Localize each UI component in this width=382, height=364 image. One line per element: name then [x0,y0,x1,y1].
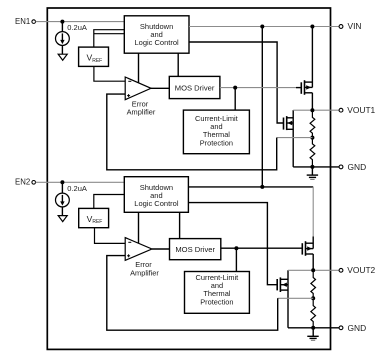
wire GND2 rail [313,327,339,329]
pin EN2 terminal circle [32,181,36,185]
wire I2 to ground [61,207,63,216]
resistor R1 [310,110,315,137]
wire VREF2 bottom to error amp 2 inverting input [95,228,126,244]
wire Shutdown2 to MOS Driver 2 [179,212,181,238]
wire Shutdown1 to VIN rail [189,26,339,28]
wire VREF1 bottom to error amp inverting input [94,66,125,81]
svg-text:Protection: Protection [200,139,233,148]
wire EN2 node to current source I2 [61,182,63,193]
svg-text:Logic Control: Logic Control [134,38,179,47]
wire error amp 2 output to MOS Driver 2 [152,248,170,250]
wire error amp 1 output to MOS Driver 1 [151,87,169,89]
ground symbol 1 [311,167,313,175]
wire Shutdown2 enable to error amp 2 [138,212,140,243]
wire VIN down to channel 2 [261,27,263,187]
reference VREF2 box [79,208,109,227]
svg-text:EN1: EN1 [15,17,30,26]
block MOS Driver 2 [170,239,221,260]
current source I1 0.2uA [56,32,70,46]
wire Q3 source down to VOUT2 [312,254,314,270]
block Current-Limit and Thermal Protection 1 [183,110,249,154]
svg-text:VOUT2: VOUT2 [347,265,375,275]
svg-text:Logic Control: Logic Control [134,199,179,208]
node feedback tap 1 [310,136,314,140]
wire feedback 2: tap to error amp 2 + input [278,297,314,299]
svg-text:EN2: EN2 [15,178,30,187]
wire VIN down to Q1 drain/body [311,27,313,88]
wire Q4 drain up to VOUT2 rail and source down to GND rail [287,270,289,328]
wire EN2 to Shutdown2 [36,181,125,183]
resistor R4 [311,298,316,328]
wire Shutdown1 to Q2 gate [189,42,284,123]
node VIN feed joins [260,185,264,189]
reference VREF1 box [79,47,109,66]
svg-text:0.2uA: 0.2uA [67,23,87,32]
wire VREF2 top to Shutdown2 [94,195,125,209]
pin GND1 terminal [339,165,343,169]
svg-text:VOUT1: VOUT1 [347,105,375,115]
wire MOS Driver 2 output to Q3 gate [221,247,303,249]
wire I1 to ground [61,45,63,54]
block Shutdown and Logic Control 2 [124,177,188,213]
wire VOUT2 rail [288,269,339,271]
node feedback tap 2 [311,296,315,300]
node VOUT2 divider tap [311,268,315,272]
svg-text:VIN: VIN [348,21,362,31]
node VIN tap to channel 2 [260,25,264,29]
node EN1 junction [60,20,64,24]
transistor Q3 (pass PMOS ch2) [301,243,303,254]
current source I2 0.2uA [56,193,70,207]
transistor Q2 (feedback NMOS) [283,118,285,130]
ground (open triangle) under I2 [58,216,67,222]
wire feedback 1: tap to error amp + input [277,137,313,139]
svg-text:GND: GND [348,323,367,333]
wire EN1 node to current source I1 [61,22,63,32]
wire to Current-Limit 2 [235,248,237,271]
outer IC boundary box [47,8,330,349]
wire VIN feed down to Q3 [312,187,314,237]
pin VIN terminal [339,25,343,29]
node MOS Driver 1 output to current limit [233,86,237,90]
svg-text:MOS Driver: MOS Driver [175,83,215,92]
node VOUT1 divider tap [310,108,314,112]
wire GND1 rail [312,166,339,168]
svg-text:Amplifier: Amplifier [127,108,156,117]
wire to Current-Limit 1 [234,88,236,111]
svg-text:Protection: Protection [200,298,233,307]
svg-text:0.2uA: 0.2uA [67,184,87,193]
pin VOUT1 terminal [339,108,343,112]
node VIN tap to Q1 drain [310,25,314,29]
resistor R2 [310,138,315,167]
wire VREF1 to Shutdown1 (lower) [94,33,125,35]
pin GND2 terminal [339,326,343,330]
wire Shutdown1 to MOS Driver 1 [177,53,179,76]
svg-text:Amplifier: Amplifier [130,268,159,277]
op-amp error amplifier 1 [125,77,151,100]
wire Shutdown2/VIN to Q3 drain [188,186,313,188]
wire Shutdown2 to Q4 gate [188,203,277,285]
node MOS Driver 2 output to current limit [234,246,238,250]
node GND1 junction [310,165,314,169]
transistor Q1 (pass PMOS) [300,82,302,94]
svg-text:MOS Driver: MOS Driver [175,245,215,254]
wire VOUT1 rail [293,109,339,111]
node GND2 junction [311,326,315,330]
ground (open triangle) under I1 [58,54,67,60]
node EN2 junction [60,180,64,184]
wire EN1 to Shutdown1 [36,21,125,23]
wire VREF1 top to Shutdown1 (upper) [94,30,125,47]
wire Q2 drain up to VOUT1 rail and source down to GND rail [292,110,294,167]
ground symbol 2 [312,328,314,337]
svg-text:GND: GND [348,162,367,172]
block Current-Limit and Thermal Protection 2 [185,272,250,314]
wire Shutdown1 enable to error amp 1 [138,53,140,83]
pin EN1 terminal circle [32,20,36,24]
resistor R3 [311,270,316,298]
block MOS Driver 1 [169,76,220,98]
pin VOUT2 terminal [339,268,343,272]
wire MOS Driver 1 output to Q1 gate [220,87,296,89]
wire Q1 source down to VOUT1 [311,93,313,110]
op-amp error amplifier 2 [125,238,152,261]
block Shutdown and Logic Control 1 [124,16,189,53]
transistor Q4 (feedback NMOS ch2) [276,279,278,290]
